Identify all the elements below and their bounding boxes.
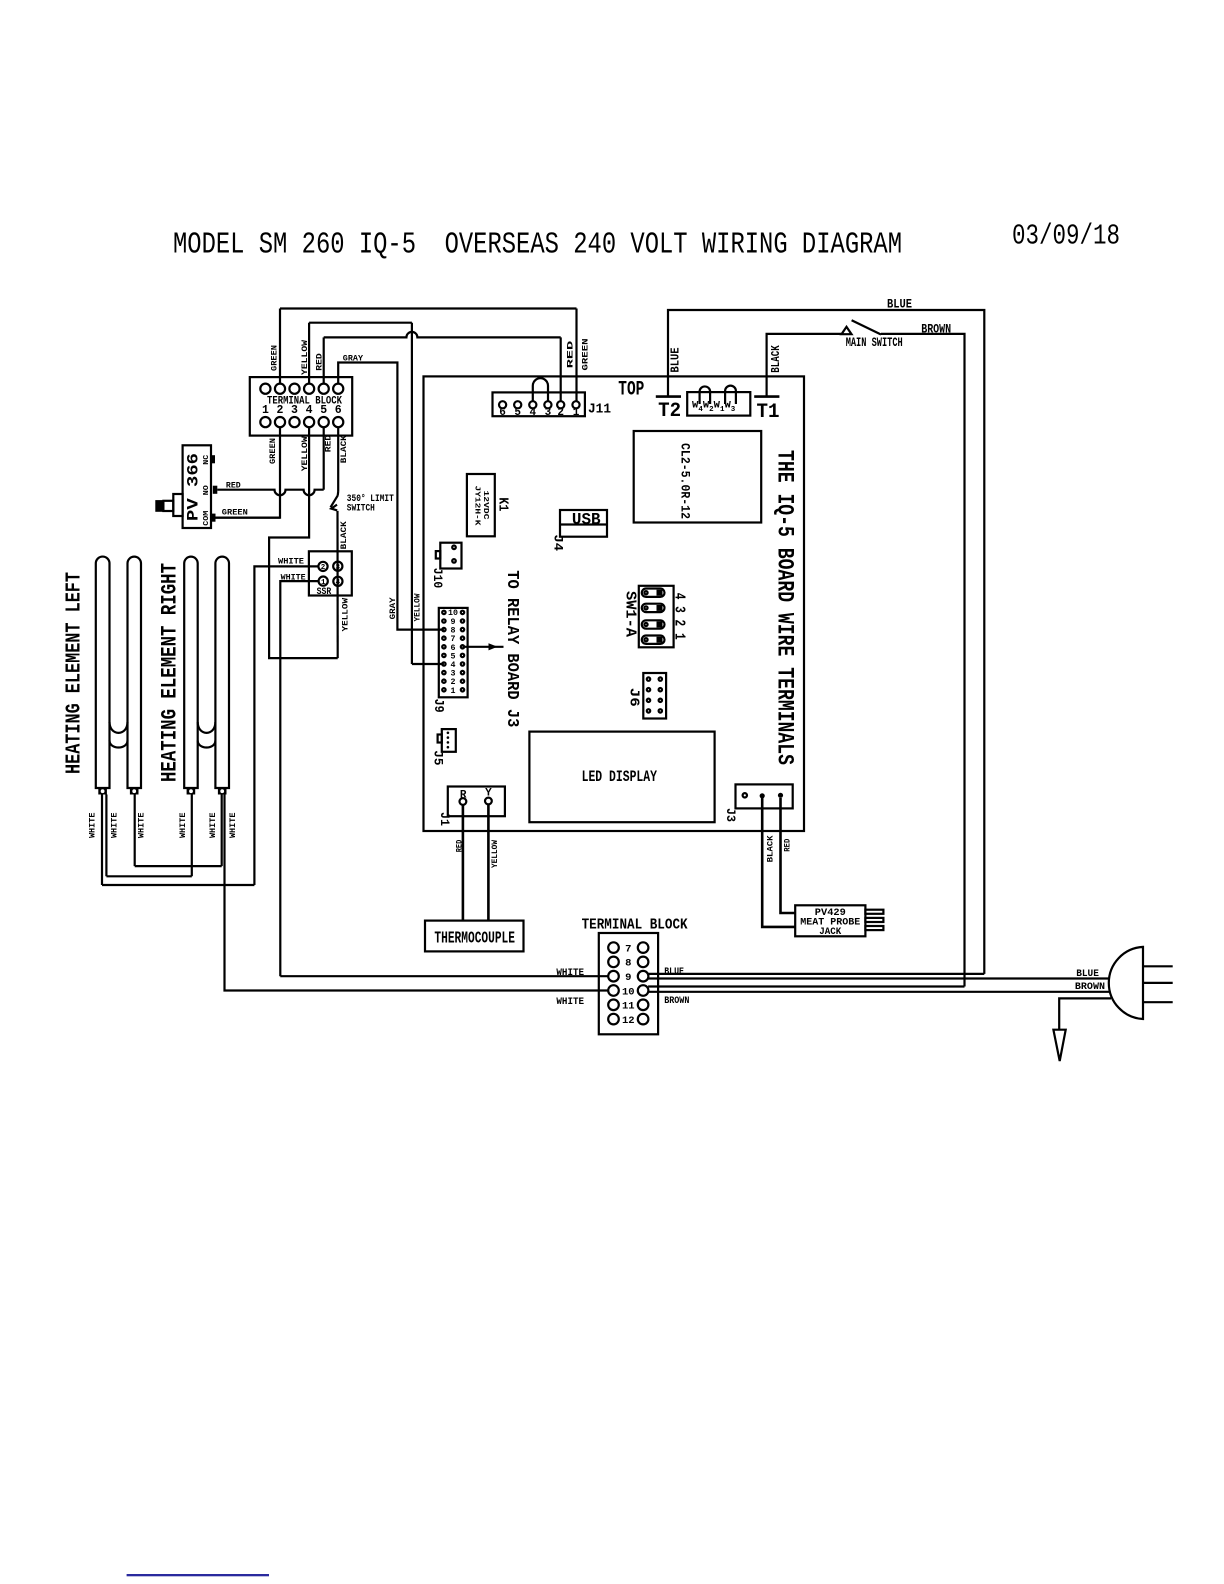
wire BLACK switch to SSR pin3 [336,511,338,658]
connector J6 body [643,673,666,719]
PV366 shaft collar [173,494,182,516]
svg-text:MAIN SWITCH: MAIN SWITCH [846,336,903,350]
wire BROWN TB2 row10 to right riser [648,985,964,987]
connector J10 body [440,543,461,569]
svg-text:2: 2 [557,407,564,419]
IQ5 board outline [424,376,805,831]
svg-text:BLUE: BLUE [664,967,684,978]
svg-text:JY12H-K: JY12H-K [473,486,481,527]
plug prong 2 [1144,982,1173,984]
svg-text:4: 4 [336,579,341,587]
svg-text:6: 6 [499,407,506,419]
terminal block TB2 body [599,933,658,1034]
J9 pin numbers [448,609,458,696]
main switch fixed contact [842,327,852,334]
wire tube1 right down [105,795,107,877]
wire tube4 right down to TB2 row10 [225,795,609,991]
svg-text:MODEL SM 260 IQ-5 OVERSEAS 24: MODEL SM 260 IQ-5 OVERSEAS 240 VOLT WIRI… [173,228,902,263]
svg-text:12VDC: 12VDC [481,491,489,521]
TB1 pin numbers 1-6 [262,404,342,417]
ground arrow [1053,1030,1065,1061]
svg-text:RED: RED [566,341,575,369]
SSR pin 2 [318,562,327,571]
ground wire [1059,998,1111,1029]
wire GREEN TB1-2 bottom down [216,427,281,518]
svg-text:WHITE: WHITE [209,812,218,838]
svg-text:J3: J3 [723,808,738,822]
J6 pins [647,677,662,712]
terminal block TB1 body [250,377,352,436]
svg-text:J10: J10 [430,568,445,589]
heating element right tube 4 [215,557,229,788]
wire tube4 left down [221,795,223,867]
svg-text:SSR: SSR [317,587,332,598]
SW1-A switch 4 [642,589,665,597]
heating element right U-bend [198,722,216,747]
TB1 pin circles bottom [260,417,343,427]
tube 2 terminal [130,788,139,795]
svg-text:YELLOW: YELLOW [301,340,310,375]
svg-text:BLUE: BLUE [887,298,912,312]
svg-text:BLACK: BLACK [766,835,775,862]
svg-text:RED: RED [316,353,325,371]
wire YELLOW horizontal [309,322,412,324]
wire YELLOW down with hop over RED [412,323,444,664]
heating element left U-bend [110,722,128,747]
terminal T1 lead [767,334,841,397]
svg-text:1: 1 [451,687,456,696]
SW1-A switch 2 [642,620,665,628]
wire GREEN horizontal to J11 [280,307,577,309]
PV366 potentiometer body [183,445,211,528]
SSR pin 4 [333,577,342,586]
heating element left tube 2 [128,557,142,788]
J11 pin circles [499,401,580,408]
wire YELLOW TB1-4 bottom down [269,427,338,658]
wire bus tube1 to SSR riser [102,884,254,886]
wire GREEN PV366 COM [216,516,281,518]
svg-text:YELLOW: YELLOW [301,436,310,471]
J5 pins [447,732,450,749]
SSR body [309,551,352,595]
relay CL2-5.0R-12 box [634,431,762,523]
svg-text:BLUE: BLUE [1076,969,1099,980]
terminal T2 lead [668,310,984,974]
terminal T2 bar [656,395,681,398]
svg-text:T2: T2 [658,400,681,423]
350 limit switch blade [331,492,339,511]
J3 pin 3 [778,793,783,798]
svg-text:WHITE: WHITE [229,812,238,838]
wire tube3 down [191,795,193,877]
svg-text:WHITE: WHITE [89,812,98,838]
USB connector J4 [560,510,607,537]
PV366 NO tab [213,486,218,494]
PV429 meat probe jack body [795,905,865,936]
svg-text:BLUE: BLUE [669,347,683,372]
svg-text:WHITE: WHITE [138,812,147,838]
svg-text:PV 366: PV 366 [185,453,203,521]
svg-text:GRAY: GRAY [343,354,363,363]
svg-text:J5: J5 [431,750,446,765]
svg-text:RED: RED [226,482,241,491]
svg-text:WHITE: WHITE [281,573,306,582]
svg-text:2: 2 [321,564,326,572]
svg-text:11: 11 [622,1001,635,1013]
svg-text:SWITCH: SWITCH [347,504,375,515]
PV429 prong 3 [865,926,883,930]
svg-text:8: 8 [625,958,631,970]
svg-text:WHITE: WHITE [278,557,304,566]
wire BLUE TB2 row9 to plug [648,977,1108,979]
svg-text:RED: RED [784,839,793,852]
svg-text:HEATING ELEMENT RIGHT: HEATING ELEMENT RIGHT [158,563,183,782]
W4W2W1W3 box [687,392,750,416]
USB divider [560,523,607,525]
svg-text:YELLOW: YELLOW [341,598,350,632]
svg-text:BLACK: BLACK [340,435,349,463]
PV366 shaft end [155,500,163,512]
PV366 shaft [163,501,173,511]
J10 pins [452,546,456,550]
svg-text:J11: J11 [588,403,611,418]
wire RED TB1-5 bottom down [323,427,325,490]
svg-text:9: 9 [625,972,631,984]
tube 4 terminal [218,788,227,795]
wire WHITE SSR pin1 left [280,581,318,976]
wire bus tube2 to tube4 [135,865,222,867]
TB2 pin circles left [608,942,619,1024]
svg-text:3: 3 [545,407,552,419]
heating element left tube 1 [96,557,110,788]
svg-text:TO RELAY BOARD J3: TO RELAY BOARD J3 [503,570,522,727]
connector J9 body [439,608,468,697]
TB2 pin circles right [638,942,649,1024]
svg-text:5: 5 [320,404,327,417]
W box jumper arc 2 [725,386,736,404]
svg-text:TERMINAL BLOCK: TERMINAL BLOCK [582,918,688,934]
main switch blade [852,320,881,334]
wire tube2 down [134,795,136,867]
svg-text:J9: J9 [430,699,446,713]
svg-text:3: 3 [291,404,298,417]
svg-text:COM: COM [203,511,211,526]
tube 3 terminal [187,788,196,795]
PV429 prong 2 [865,918,883,922]
plug prong 1 [1144,965,1173,967]
wire GREEN TB1-2 top up [279,309,281,384]
svg-text:K1: K1 [494,497,510,511]
tube 1 terminal [98,788,107,795]
svg-text:SW1-A: SW1-A [622,591,639,637]
wire WHITE row9 to TB2 [280,975,608,977]
J9 pin circles [442,611,464,692]
svg-text:WHITE: WHITE [556,997,584,1008]
svg-text:THERMOCOUPLE: THERMOCOUPLE [434,929,515,948]
svg-text:03/09/18: 03/09/18 [1012,220,1120,253]
J5 tab [438,735,442,743]
wire RED J1 to thermocouple [462,805,465,921]
svg-text:LED DISPLAY: LED DISPLAY [582,768,658,786]
LED display box [529,732,714,823]
svg-text:GRAY: GRAY [389,597,398,619]
svg-text:RED: RED [456,840,465,853]
wire YELLOW TB1-4 top up [308,323,310,384]
svg-text:WHITE: WHITE [556,968,584,979]
svg-text:NC: NC [203,455,211,465]
wire BLUE TB2 row9 to right riser [648,973,984,975]
wire YELLOW J1 to thermocouple [487,804,490,920]
wire RED PV366 NO with hops [217,490,323,496]
connector J5 body [442,729,456,752]
svg-text:10: 10 [448,609,458,618]
SSR pin 3 [333,562,342,571]
J3 pin 1 [743,793,747,797]
wire GREEN down to J11 pin1 [575,309,577,402]
svg-text:YELLOW: YELLOW [414,593,423,621]
arrow from J9 pin6 [463,646,504,648]
svg-text:GREEN: GREEN [582,338,591,370]
terminal T1 bar [754,395,779,398]
SW1-A switch 1 [642,636,665,644]
heating element right tube 3 [184,557,198,788]
wire BLACK TB1-6 bottom down [337,427,339,492]
J10 notch [436,551,441,558]
wire GRAY TB1-6 top up [338,363,444,630]
svg-text:HEATING ELEMENT LEFT: HEATING ELEMENT LEFT [64,572,87,774]
svg-text:BROWN: BROWN [921,322,951,336]
PV429 prong 1 [865,910,883,914]
TB2 pin numbers 7-12 [622,943,635,1027]
wire tube1 left down [101,795,103,886]
wire RED down to J11 pin2 [560,337,562,401]
PV366 COM tab [211,514,216,522]
PV366 NC tab [211,455,215,463]
J3 pin 2 [760,793,765,798]
svg-text:TOP: TOP [618,379,644,402]
svg-text:BROWN: BROWN [664,996,689,1007]
svg-text:J6: J6 [626,688,642,707]
wire BROWN from switch [881,334,965,987]
svg-text:GREEN: GREEN [222,509,248,518]
wire WHITE SSR pin2 left [254,566,318,885]
J1 R pin [460,798,467,805]
SW1-A switch 3 [642,604,665,612]
svg-text:5: 5 [514,407,521,419]
wire BROWN TB2 row10 to plug [648,991,1109,993]
svg-text:BROWN: BROWN [1075,982,1105,993]
svg-text:WHITE: WHITE [111,812,120,838]
svg-text:7: 7 [625,943,631,955]
svg-text:T1: T1 [757,401,780,424]
svg-text:4: 4 [529,407,536,419]
svg-text:BLACK: BLACK [340,521,349,549]
svg-text:1: 1 [321,579,326,587]
svg-text:J1: J1 [437,812,452,826]
W box jumper arc 1 [700,386,711,404]
svg-text:NO: NO [203,485,211,495]
wire RED horizontal with hop over yellow vertical [324,332,561,338]
wire RED TB1-5 top up [323,337,325,383]
svg-text:J4: J4 [551,535,566,552]
svg-text:THE IQ-5 BOARD WIRE TERMINALS: THE IQ-5 BOARD WIRE TERMINALS [772,450,798,765]
svg-text:USB: USB [572,511,601,530]
J1 Y pin [485,798,492,805]
svg-text:12: 12 [622,1015,635,1027]
wire RED J3 to jack [781,798,796,913]
J11 jumper pins 3-4 [533,378,548,401]
connector J1 body [448,787,505,817]
svg-text:YELLOW: YELLOW [491,840,500,868]
svg-text:GREEN: GREEN [269,438,278,464]
SSR pin 1 [319,577,328,586]
wire BLACK J3 to jack [762,798,795,927]
svg-text:4 3 2 1: 4 3 2 1 [671,593,688,640]
J11 pin numbers [499,407,579,419]
svg-text:3: 3 [336,564,341,572]
plug prong 3 [1144,1001,1173,1003]
svg-text:1: 1 [262,404,269,417]
connector J11 body [493,392,585,416]
relay K1 box [467,474,495,536]
TB1 pin circles top [260,384,343,394]
power plug body [1109,947,1143,1019]
svg-text:RED: RED [325,435,334,453]
svg-text:JACK: JACK [819,927,841,938]
wire bus tube1 to tube3 [106,875,191,877]
svg-text:BLACK: BLACK [769,345,783,373]
svg-text:1: 1 [573,407,580,419]
svg-text:WHITE: WHITE [179,812,188,838]
svg-text:10: 10 [622,986,635,998]
svg-text:CL2-5.0R-12: CL2-5.0R-12 [678,443,693,519]
DIP switch SW1-A body [639,586,674,648]
svg-text:2: 2 [277,404,284,417]
svg-text:4: 4 [306,404,313,417]
thermocouple body [425,921,524,952]
svg-text:GREEN: GREEN [271,345,280,371]
connector J3 body [736,784,793,808]
svg-text:6: 6 [335,404,342,417]
blue underline mark [127,1574,269,1576]
